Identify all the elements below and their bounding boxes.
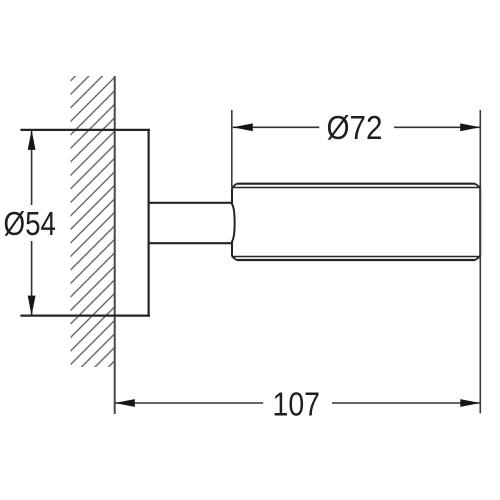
107 dimension line left segment <box>115 402 263 404</box>
107 dimension line right segment <box>332 402 480 404</box>
Ø54 dimension line top segment <box>31 130 33 205</box>
holder body inner top line <box>232 187 480 189</box>
wall hatching <box>71 76 115 367</box>
Ø54 bottom arrowhead <box>28 296 36 316</box>
holder body top-left chamfer <box>232 184 237 188</box>
holder body right face <box>479 188 481 257</box>
holder body bottom-left chamfer <box>232 257 237 261</box>
svg-text:Ø72: Ø72 <box>327 109 383 146</box>
Ø72 left arrowhead <box>233 123 253 131</box>
holder body top-right chamfer <box>475 184 480 188</box>
holder body outer bottom edge <box>237 259 476 261</box>
svg-text:107: 107 <box>273 386 321 423</box>
holder body left face with fillet bulge at stem <box>232 188 235 257</box>
svg-text:Ø54: Ø54 <box>4 205 57 242</box>
rosette plate right edge <box>148 130 150 316</box>
holder body inner bottom line <box>232 256 480 258</box>
Ø54 dimension line bottom segment <box>31 241 33 316</box>
wall face line (also 107 left extension line) <box>114 76 116 414</box>
holder body bottom-right chamfer <box>475 257 480 261</box>
107 left arrowhead <box>115 399 135 407</box>
Ø72 right arrowhead <box>460 123 480 131</box>
Ø72 dimension line right segment <box>394 126 480 128</box>
Ø72 dimension line left segment <box>233 126 319 128</box>
Ø54 top arrowhead <box>28 130 36 150</box>
107 right arrowhead <box>460 399 480 407</box>
holder body outer top edge <box>237 183 476 185</box>
rosette plate bottom edge with Ø54 bottom extension line <box>20 315 150 317</box>
stem top edge <box>149 202 232 204</box>
stem bottom edge <box>149 242 232 244</box>
Ø72 left extension line <box>231 110 233 187</box>
Ø72 right extension line continuing as 107 right extension line <box>479 110 481 413</box>
rosette plate top edge with Ø54 top extension line <box>20 129 150 131</box>
